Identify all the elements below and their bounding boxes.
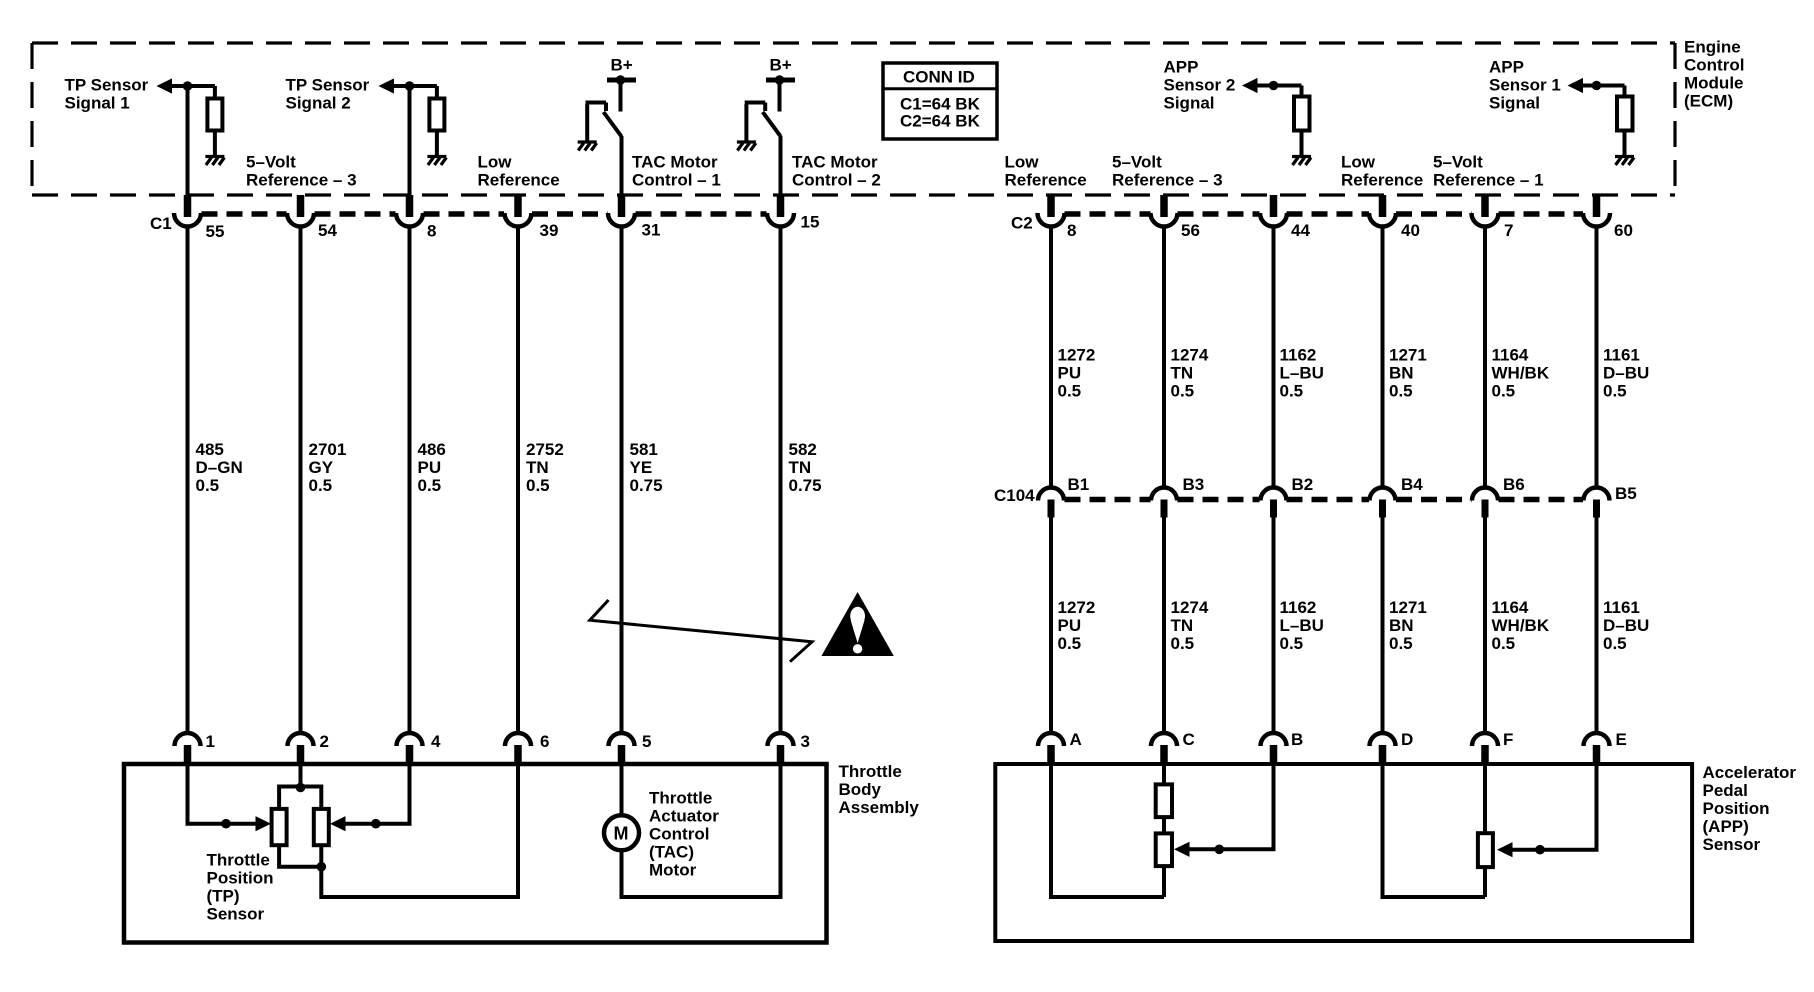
net label 5-Volt Reference - 3 (C1 pin 54) — [246, 153, 357, 190]
APP pin E stub — [1593, 745, 1601, 764]
svg-text:TP Sensor: TP Sensor — [286, 76, 370, 95]
resistor R-TP2 — [429, 99, 444, 131]
node junction APP2 — [1269, 81, 1279, 91]
svg-text:Actuator: Actuator — [649, 807, 719, 826]
wire 1162 L-BU lower (C104 B2 to APP pin B) — [1272, 518, 1276, 734]
C104 pin B3 cup — [1151, 488, 1177, 501]
svg-text:8: 8 — [427, 222, 436, 241]
Accelerator Pedal Position Sensor box — [995, 764, 1692, 941]
pin 15 connector cup — [767, 213, 794, 227]
pin 8 (C2) stub — [1047, 195, 1055, 217]
wire 1272 upper label — [1058, 346, 1096, 401]
svg-text:56: 56 — [1181, 221, 1200, 240]
svg-text:1274: 1274 — [1171, 346, 1209, 365]
pin 60 stub — [1593, 195, 1601, 217]
svg-text:1164: 1164 — [1492, 598, 1529, 617]
svg-text:(ECM): (ECM) — [1684, 92, 1733, 111]
svg-text:B4: B4 — [1401, 475, 1423, 494]
svg-text:31: 31 — [642, 221, 661, 240]
connector C1 dashed bus — [202, 211, 767, 217]
wire 1162 lower label — [1280, 598, 1324, 653]
svg-text:TAC Motor: TAC Motor — [792, 153, 878, 172]
wire APP pin E to pot2 wiper — [1511, 764, 1597, 850]
svg-text:(TAC): (TAC) — [649, 843, 694, 862]
svg-text:C2=64 BK: C2=64 BK — [900, 112, 981, 131]
ground SW1 — [578, 142, 597, 151]
svg-text:D–GN: D–GN — [196, 458, 243, 477]
svg-text:44: 44 — [1291, 221, 1310, 240]
net label Low Reference (C2 pin 8) — [1005, 153, 1087, 190]
C104 pin B5 cup — [1584, 488, 1610, 501]
svg-text:PU: PU — [418, 458, 442, 477]
svg-text:BN: BN — [1389, 616, 1414, 635]
wire SW2 output — [779, 136, 783, 195]
wire R-TP2 to ground — [435, 131, 439, 156]
net label Low Reference (C2 pin 40) — [1341, 153, 1423, 190]
svg-text:0.75: 0.75 — [630, 476, 663, 495]
svg-text:0.5: 0.5 — [1280, 382, 1304, 401]
svg-text:0.5: 0.5 — [1492, 382, 1516, 401]
pin 54 stub — [297, 195, 305, 217]
svg-text:TN: TN — [789, 458, 812, 477]
svg-text:0.5: 0.5 — [1603, 382, 1627, 401]
pin 44 connector cup — [1260, 213, 1287, 227]
TP Sensor Signal 2 arrow — [379, 78, 395, 93]
pin 39 stub — [514, 195, 522, 217]
connector C104 dashed bus — [1065, 497, 1584, 503]
svg-text:Position: Position — [207, 869, 274, 888]
svg-text:Sensor 1: Sensor 1 — [1489, 76, 1561, 95]
wire 486 label — [418, 440, 446, 495]
svg-text:40: 40 — [1401, 221, 1420, 240]
wire R-TP1 to ground — [213, 131, 217, 156]
C104 pin B3 stub — [1161, 500, 1168, 518]
svg-text:0.5: 0.5 — [1058, 382, 1082, 401]
svg-text:WH/BK: WH/BK — [1492, 616, 1550, 635]
svg-text:TN: TN — [526, 458, 549, 477]
svg-text:0.5: 0.5 — [309, 476, 333, 495]
resistor R-APP2 — [1294, 97, 1310, 131]
svg-text:Throttle: Throttle — [207, 851, 270, 870]
svg-text:Reference – 3: Reference – 3 — [246, 171, 357, 190]
node B+2 — [775, 75, 785, 85]
svg-text:Assembly: Assembly — [839, 798, 920, 817]
wire 1271 lower label — [1389, 598, 1427, 653]
TP Sensor Signal 1 arrow — [157, 78, 173, 93]
svg-text:5–Volt: 5–Volt — [246, 153, 296, 172]
TP sensor element A (left) — [272, 809, 287, 845]
TP Sensor Signal 2 label — [286, 76, 370, 113]
TB pin 3 stub — [777, 745, 785, 764]
svg-text:Position: Position — [1703, 799, 1770, 818]
CONN ID table — [883, 63, 997, 139]
TB pin 4 stub — [406, 745, 414, 764]
svg-text:1162: 1162 — [1280, 598, 1317, 617]
pin 8 (C1) stub — [406, 195, 414, 217]
svg-text:0.5: 0.5 — [1058, 634, 1082, 653]
APP pin D connector cup — [1370, 733, 1396, 746]
wire resistor R-APP2 lead — [1300, 86, 1304, 98]
wire APP pin B to pot1 wiper — [1188, 764, 1274, 849]
node TP top junction — [296, 783, 306, 793]
svg-text:(TP): (TP) — [207, 887, 240, 906]
pin 54 connector cup — [287, 213, 314, 227]
svg-text:Sensor 2: Sensor 2 — [1164, 76, 1236, 95]
Accelerator Pedal Position Sensor label — [1703, 763, 1797, 854]
wire 1272 PU upper (pin 8 C2 to C104 B1) — [1049, 228, 1053, 488]
wire 1274 upper label — [1171, 346, 1209, 401]
pin 8 (C2) connector cup — [1038, 213, 1065, 227]
svg-text:TN: TN — [1171, 616, 1194, 635]
svg-text:Reference – 3: Reference – 3 — [1112, 171, 1223, 190]
net label TAC Motor Control - 2 — [792, 153, 881, 190]
svg-text:TAC Motor: TAC Motor — [632, 153, 718, 172]
svg-text:C2: C2 — [1011, 214, 1033, 233]
svg-text:54: 54 — [318, 221, 337, 240]
wire 1161 D-BU lower (C104 B5 to APP pin E) — [1595, 518, 1599, 734]
APP Sensor 1 Signal label — [1489, 58, 1561, 113]
TB pin 5 connector cup — [609, 733, 635, 746]
APP pin A stub — [1047, 745, 1055, 764]
svg-text:TN: TN — [1171, 364, 1194, 383]
pin 39 connector cup — [505, 213, 532, 227]
svg-text:1272: 1272 — [1058, 346, 1096, 365]
svg-text:B2: B2 — [1292, 475, 1314, 494]
svg-text:B6: B6 — [1503, 475, 1525, 494]
wire TP2 horizontal — [387, 84, 437, 88]
node junction TP2 — [405, 81, 415, 91]
svg-text:Low: Low — [1341, 153, 1376, 172]
svg-text:3: 3 — [801, 732, 810, 751]
Throttle Body Assembly label — [839, 762, 920, 817]
wire 1274 TN lower (C104 B3 to APP pin C) — [1162, 518, 1166, 734]
svg-text:0.5: 0.5 — [1280, 634, 1304, 653]
svg-text:Signal: Signal — [1489, 94, 1540, 113]
svg-text:5–Volt: 5–Volt — [1112, 153, 1162, 172]
switch SW2 driver — [745, 103, 781, 142]
wire 581 label — [630, 440, 663, 495]
APP pot2 wiper arrow — [1497, 842, 1513, 857]
APP pin E connector cup — [1584, 733, 1610, 746]
svg-text:B5: B5 — [1615, 484, 1637, 503]
wire TB pin2 into bracket — [299, 764, 303, 787]
svg-text:BN: BN — [1389, 364, 1414, 383]
resistor R-APP1 — [1617, 97, 1633, 131]
wire resistor R-TP1 lead — [213, 86, 217, 99]
pin 55 stub — [184, 195, 192, 217]
ground SW2 — [737, 142, 756, 151]
wire 1164 WH/BK lower (C104 B6 to APP pin F) — [1483, 518, 1487, 734]
pin 60 connector cup — [1583, 213, 1610, 227]
svg-text:C1: C1 — [150, 214, 172, 233]
ground TP1 — [205, 157, 224, 166]
wire 1271 BN upper (pin 40 to C104 B4) — [1381, 228, 1385, 488]
svg-text:0.5: 0.5 — [526, 476, 550, 495]
svg-text:Body: Body — [839, 780, 882, 799]
svg-text:581: 581 — [630, 440, 658, 459]
node B+1 — [616, 75, 626, 85]
svg-text:B1: B1 — [1068, 475, 1090, 494]
svg-text:Signal: Signal — [1164, 94, 1215, 113]
APP Sensor 2 arrow — [1242, 78, 1258, 93]
svg-text:Motor: Motor — [649, 861, 697, 880]
TB pin 5 stub — [618, 745, 626, 764]
wire 485 label — [196, 440, 243, 495]
wire APP1 horizontal — [1575, 84, 1625, 88]
svg-text:PU: PU — [1058, 364, 1082, 383]
wire APP2 horizontal — [1250, 84, 1302, 88]
wire 1161 lower label — [1603, 598, 1649, 653]
wire 1274 TN upper (pin 56 to C104 B3) — [1162, 228, 1166, 488]
wire 582 TN (pin 15 to TAC motor pin 3) — [779, 228, 783, 733]
wire TB pin1 to TP wiper — [188, 764, 257, 824]
svg-text:B+: B+ — [611, 56, 633, 75]
svg-text:WH/BK: WH/BK — [1492, 364, 1550, 383]
APP pot1 element upper — [1156, 784, 1172, 817]
svg-text:Sensor: Sensor — [1703, 835, 1761, 854]
pin 40 connector cup — [1369, 213, 1396, 227]
TB pin 3 connector cup — [768, 733, 794, 746]
pin 44 stub — [1270, 195, 1278, 217]
svg-text:Signal 2: Signal 2 — [286, 94, 351, 113]
svg-text:Control – 1: Control – 1 — [632, 171, 721, 190]
pin 40 stub — [1379, 195, 1387, 217]
wire 1271 BN lower (C104 B4 to APP pin D) — [1381, 518, 1385, 734]
TB pin 6 connector cup — [505, 733, 531, 746]
TB pin 1 stub — [184, 745, 192, 764]
wire TP top bracket — [279, 787, 321, 809]
svg-text:D: D — [1401, 730, 1413, 749]
svg-text:D–BU: D–BU — [1603, 616, 1649, 635]
APP Sensor 1 arrow — [1568, 78, 1584, 93]
wire TB pin5 to motor — [620, 764, 624, 816]
wire R-APP1 to ground — [1623, 131, 1627, 156]
svg-text:1272: 1272 — [1058, 598, 1096, 617]
Throttle Actuator Control Motor label — [649, 789, 719, 880]
wire APP pin F to pot2 top — [1483, 764, 1487, 834]
wire 1164 WH/BK upper (pin 7 to C104 B6) — [1483, 228, 1487, 488]
svg-text:Reference: Reference — [1005, 171, 1087, 190]
APP pin B stub — [1270, 745, 1278, 764]
svg-text:2701: 2701 — [309, 440, 347, 459]
wire 2701 label — [309, 440, 347, 495]
node junction TP1 — [183, 81, 193, 91]
svg-text:0.5: 0.5 — [1389, 634, 1413, 653]
svg-text:Control: Control — [1684, 56, 1744, 75]
wire 1162 upper label — [1280, 346, 1324, 401]
pin 55 connector cup — [174, 213, 201, 227]
svg-text:Throttle: Throttle — [649, 789, 712, 808]
svg-text:Sensor: Sensor — [207, 905, 265, 924]
wire SW1 output — [620, 136, 624, 195]
TP Sensor Signal 1 label — [65, 76, 149, 113]
svg-text:0.5: 0.5 — [1389, 382, 1413, 401]
svg-text:Control – 2: Control – 2 — [792, 171, 881, 190]
svg-text:YE: YE — [630, 458, 653, 477]
wire 1272 PU lower (C104 B1 to APP pin A) — [1049, 518, 1053, 734]
svg-text:M: M — [614, 824, 629, 844]
node pot1 wiper splice — [1215, 845, 1225, 855]
svg-text:55: 55 — [206, 222, 225, 241]
svg-text:1162: 1162 — [1280, 346, 1317, 365]
svg-text:PU: PU — [1058, 616, 1082, 635]
wire B+2 stub — [778, 82, 782, 112]
APP pin C stub — [1160, 745, 1168, 764]
APP pin C connector cup — [1151, 733, 1177, 746]
svg-text:485: 485 — [196, 440, 224, 459]
net label 5-Volt Reference - 1 (C2 pin 7) — [1433, 153, 1544, 190]
wire 1271 upper label — [1389, 346, 1427, 401]
svg-text:C: C — [1183, 730, 1195, 749]
svg-text:15: 15 — [801, 213, 820, 232]
svg-text:GY: GY — [309, 458, 334, 477]
node TP bottom junction — [317, 862, 327, 872]
pin 31 connector cup — [608, 213, 635, 227]
wire resistor R-APP1 lead — [1623, 86, 1627, 98]
net label Low Reference (C1 pin 39) — [478, 153, 560, 190]
wire TP bottom bracket — [279, 845, 321, 867]
TP wiper arrow right — [330, 816, 346, 831]
svg-text:F: F — [1503, 730, 1513, 749]
svg-text:Low: Low — [1005, 153, 1040, 172]
svg-text:1164: 1164 — [1492, 346, 1529, 365]
pin 56 stub — [1160, 195, 1168, 217]
ECM label — [1684, 38, 1744, 111]
B+ terminal 1 bar — [607, 78, 636, 83]
svg-text:B+: B+ — [770, 56, 792, 75]
svg-text:TP Sensor: TP Sensor — [65, 76, 149, 95]
TP wiper arrow left — [256, 816, 272, 831]
svg-text:Throttle: Throttle — [839, 762, 902, 781]
pin 56 connector cup — [1151, 213, 1178, 227]
wire pot2 bottom lead — [1483, 867, 1487, 897]
wire 1272 lower label — [1058, 598, 1096, 653]
warning triangle — [821, 592, 893, 656]
pin 31 stub — [618, 195, 626, 217]
svg-text:2: 2 — [320, 732, 329, 751]
ECM dashed box — [32, 43, 1675, 195]
svg-text:Signal 1: Signal 1 — [65, 94, 130, 113]
TP sensor element B (right) — [314, 809, 329, 845]
TB pin 1 connector cup — [175, 733, 201, 746]
pin 7 connector cup — [1472, 213, 1499, 227]
svg-text:582: 582 — [789, 440, 817, 459]
svg-text:0.5: 0.5 — [1171, 382, 1195, 401]
svg-text:2752: 2752 — [526, 440, 564, 459]
svg-text:B3: B3 — [1183, 475, 1205, 494]
net label TAC Motor Control - 1 — [632, 153, 721, 190]
APP pin B connector cup — [1261, 733, 1287, 746]
wire 485 D-GN (pin 55 to TP sensor pin 1) — [186, 86, 190, 195]
wire 1164 upper label — [1492, 346, 1550, 401]
node TP wiper splice left — [221, 819, 231, 829]
wire TB pin4 to TP wiper right — [344, 764, 410, 824]
APP pin D stub — [1379, 745, 1387, 764]
TB pin 2 stub — [297, 745, 305, 764]
svg-text:L–BU: L–BU — [1280, 364, 1324, 383]
C104 pin B4 stub — [1379, 500, 1386, 518]
C104 pin B1 cup — [1038, 488, 1064, 501]
APP pot1 wiper arrow — [1174, 842, 1190, 857]
pin 15 stub — [777, 195, 785, 217]
B+ terminal 2 bar — [766, 78, 795, 83]
net label 5-Volt Reference - 3 (C2 pin 56) — [1112, 153, 1223, 190]
C104 pin B2 cup — [1261, 488, 1287, 501]
motor M1 (TAC motor) — [604, 815, 639, 850]
pin 8 (C1) connector cup — [396, 213, 423, 227]
connector C2 dashed bus — [1065, 211, 1584, 217]
wire 1161 upper label — [1603, 346, 1649, 401]
node pot2 wiper splice — [1535, 845, 1545, 855]
svg-text:Reference: Reference — [478, 171, 560, 190]
svg-text:4: 4 — [431, 732, 441, 751]
wire 581 YE (pin 31 to TAC motor pin 5) — [620, 228, 624, 733]
TB pin 2 connector cup — [288, 733, 314, 746]
short-to-wire fault zigzag — [590, 600, 812, 662]
wire APP pin C to pot1 top — [1162, 764, 1166, 785]
wire resistor R-TP2 lead — [435, 86, 439, 99]
wire TP bottom to TB pin6 — [321, 764, 518, 897]
svg-text:0.75: 0.75 — [789, 476, 822, 495]
svg-text:1161: 1161 — [1603, 598, 1640, 617]
svg-text:1271: 1271 — [1389, 346, 1427, 365]
APP pin A connector cup — [1038, 733, 1064, 746]
wire 1162 L-BU upper (pin 44 to C104 B2) — [1272, 228, 1276, 488]
C104 pin B6 cup — [1472, 488, 1498, 501]
svg-text:A: A — [1070, 730, 1082, 749]
node TP wiper splice right — [371, 819, 381, 829]
svg-text:B: B — [1291, 730, 1303, 749]
svg-text:0.5: 0.5 — [196, 476, 220, 495]
svg-text:CONN ID: CONN ID — [903, 68, 975, 87]
svg-text:60: 60 — [1614, 221, 1633, 240]
wire B+1 stub — [619, 82, 623, 112]
TB pin 6 stub — [514, 745, 522, 764]
svg-text:5–Volt: 5–Volt — [1433, 153, 1483, 172]
ground APP1 — [1615, 157, 1634, 166]
svg-text:C104: C104 — [994, 486, 1035, 505]
C104 pin B6 stub — [1482, 500, 1489, 518]
svg-text:Pedal: Pedal — [1703, 781, 1748, 800]
svg-text:D–BU: D–BU — [1603, 364, 1649, 383]
svg-text:0.5: 0.5 — [1492, 634, 1516, 653]
C104 pin B5 stub — [1593, 500, 1600, 518]
wire pot1 bottom lead — [1162, 866, 1166, 897]
svg-text:8: 8 — [1067, 221, 1076, 240]
node junction APP1 — [1592, 81, 1602, 91]
wire 2701 GY (pin 54 to TP sensor pin 2) — [299, 228, 303, 733]
wire pot1 mid link — [1162, 817, 1166, 833]
svg-text:1: 1 — [206, 732, 215, 751]
wire 486 PU (pin 8 to TP sensor pin 4) — [408, 86, 412, 195]
APP pin F stub — [1481, 745, 1489, 764]
wire APP pin A to pot1 bottom — [1051, 764, 1164, 897]
svg-text:1274: 1274 — [1171, 598, 1209, 617]
C104 pin B4 cup — [1370, 488, 1396, 501]
wire TP1 horizontal — [165, 84, 215, 88]
switch SW1 driver — [586, 103, 622, 142]
svg-text:Module: Module — [1684, 74, 1744, 93]
Throttle Body Assembly box — [124, 764, 827, 943]
wire APP pin D to pot2 bottom — [1383, 764, 1486, 897]
svg-text:5: 5 — [642, 732, 651, 751]
svg-text:0.5: 0.5 — [1171, 634, 1195, 653]
resistor R-TP1 — [207, 99, 222, 131]
ground APP2 — [1292, 157, 1311, 166]
svg-text:Reference – 1: Reference – 1 — [1433, 171, 1544, 190]
svg-text:6: 6 — [540, 732, 549, 751]
svg-text:0.5: 0.5 — [1603, 634, 1627, 653]
